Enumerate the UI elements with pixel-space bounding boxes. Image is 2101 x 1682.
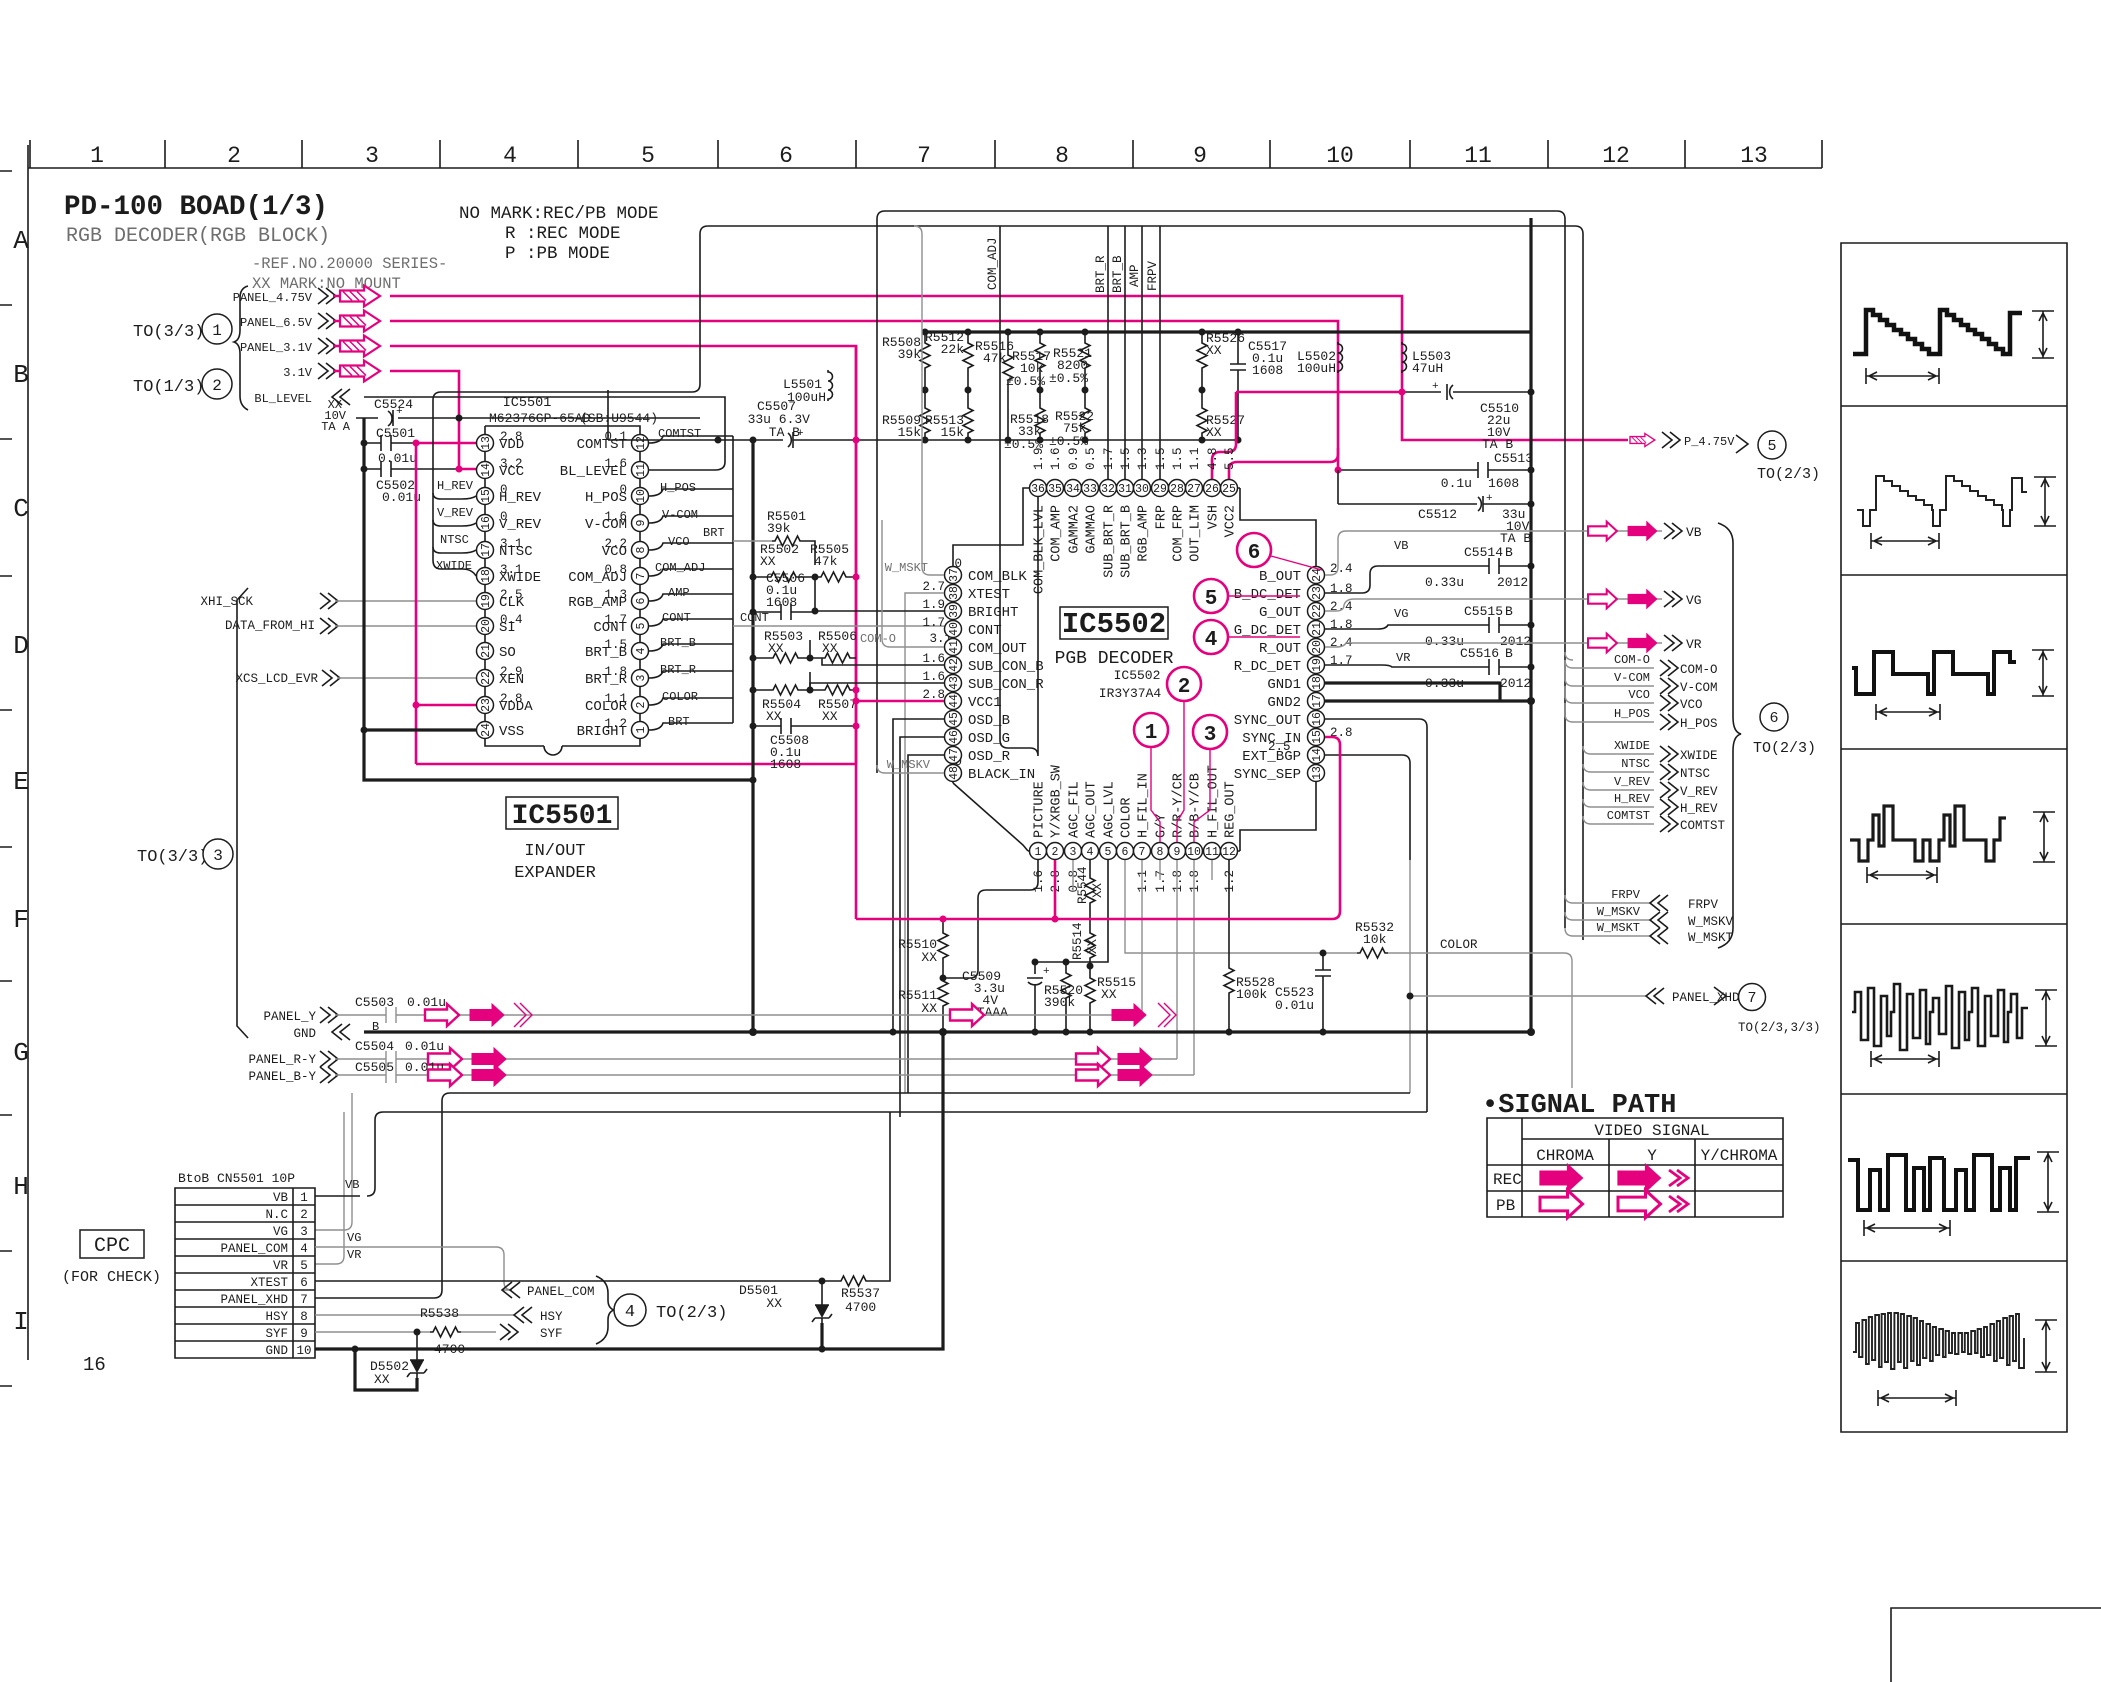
- svg-text:C: C: [13, 494, 29, 524]
- wire pin2 magenta drop: [1054, 860, 1057, 919]
- svg-text:11: 11: [1205, 846, 1219, 859]
- svg-text:V_REV: V_REV: [1680, 785, 1718, 799]
- wire VG output: [1588, 590, 1617, 609]
- svg-text:47k: 47k: [983, 351, 1007, 366]
- svg-text:0: 0: [500, 483, 508, 497]
- svg-text:IR3Y37A4: IR3Y37A4: [1099, 686, 1162, 701]
- IC5502 bottom pin labels: [1033, 764, 1239, 838]
- svg-text:4: 4: [625, 1303, 635, 1322]
- svg-text:20: 20: [480, 619, 493, 633]
- svg-text:1: 1: [300, 1191, 308, 1205]
- svg-text:3: 3: [365, 143, 379, 169]
- svg-text:SYNC_OUT: SYNC_OUT: [1234, 713, 1301, 729]
- waveform box frames: [1841, 243, 2067, 1432]
- svg-text:PANEL_3.1V: PANEL_3.1V: [240, 341, 313, 355]
- svg-text:SUB_CON_B: SUB_CON_B: [968, 659, 1044, 675]
- svg-text:1.2: 1.2: [604, 717, 627, 731]
- wire OSD_R pin47: [908, 755, 944, 1093]
- IC5502 top pin labels: [1033, 505, 1239, 594]
- svg-text:TA A: TA A: [321, 420, 351, 434]
- svg-text:R_DC_DET: R_DC_DET: [1234, 659, 1301, 675]
- svg-text:AGC_OUT: AGC_OUT: [1085, 781, 1100, 838]
- svg-text:C5516: C5516: [1460, 646, 1499, 661]
- svg-text:6: 6: [300, 1276, 308, 1290]
- wire pin3 drop: [1072, 860, 1074, 890]
- svg-text:32: 32: [1101, 483, 1115, 496]
- svg-text:XX: XX: [921, 950, 937, 965]
- svg-text:10: 10: [635, 489, 648, 503]
- ruler tick marks left edge: [0, 171, 12, 1386]
- svg-text:H_REV: H_REV: [437, 479, 474, 493]
- wire over IC5501: [433, 226, 1583, 940]
- svg-text:IC5501: IC5501: [503, 396, 552, 411]
- svg-text:TA B: TA B: [1482, 437, 1513, 452]
- svg-text:XWIDE: XWIDE: [1680, 749, 1718, 763]
- svg-text:PGB DECODER: PGB DECODER: [1055, 649, 1174, 669]
- svg-text:W_MSKV: W_MSKV: [887, 758, 931, 772]
- svg-text:REG_OUT: REG_OUT: [1224, 781, 1239, 838]
- svg-text:H_POS: H_POS: [660, 481, 696, 495]
- svg-text:8: 8: [1157, 846, 1164, 859]
- wire VCC2 magenta: [1229, 448, 1338, 479]
- svg-text:29: 29: [1153, 483, 1167, 496]
- svg-text:1.6: 1.6: [1049, 447, 1063, 470]
- svg-text:XX: XX: [766, 1296, 782, 1311]
- svg-text:36: 36: [1031, 483, 1045, 496]
- svg-text:IC5502: IC5502: [1062, 608, 1166, 641]
- svg-text:+: +: [1486, 493, 1493, 505]
- arrow REC Y: [1618, 1164, 1661, 1192]
- svg-text:+: +: [396, 406, 403, 418]
- svg-text:D: D: [13, 631, 29, 661]
- wire VSH feed magenta: [1236, 391, 1402, 394]
- svg-text:XTEST: XTEST: [968, 587, 1010, 603]
- svg-text:17: 17: [1311, 694, 1324, 708]
- svg-text:B_DC_DET: B_DC_DET: [1234, 587, 1301, 603]
- svg-text:3: 3: [635, 674, 648, 681]
- svg-text:XX: XX: [822, 641, 838, 656]
- resistor R5507: [822, 685, 853, 695]
- svg-text:7: 7: [917, 143, 931, 169]
- wire magenta lower trunk: [856, 737, 1340, 919]
- node 3 circled: [1193, 715, 1227, 749]
- wire VR long: [315, 1112, 344, 1264]
- wire pin8 drop: [1159, 860, 1161, 880]
- svg-text:41: 41: [948, 640, 961, 654]
- wire top power rail: [923, 330, 1531, 333]
- svg-text:COM_AMP: COM_AMP: [1050, 505, 1065, 562]
- arrow pair PANEL_Y right: [950, 1004, 984, 1026]
- arrow hatch 3.1V: [340, 361, 380, 382]
- svg-text:COM-O: COM-O: [1680, 663, 1718, 677]
- svg-text:+: +: [1043, 966, 1050, 978]
- svg-text:VR: VR: [1396, 651, 1410, 665]
- svg-text:-REF.NO.20000 SERIES-: -REF.NO.20000 SERIES-: [252, 255, 447, 273]
- svg-text:XX: XX: [1101, 987, 1117, 1002]
- arrow hatch PANEL_6.5V: [340, 311, 380, 332]
- svg-text:(SB:U9544): (SB:U9544): [580, 411, 658, 426]
- svg-text:OSD_B: OSD_B: [968, 713, 1010, 729]
- node 4 TO(2/3): [614, 1294, 646, 1326]
- svg-text:2.5: 2.5: [500, 588, 523, 602]
- svg-text:XX: XX: [1206, 343, 1222, 358]
- svg-text:C5501: C5501: [376, 426, 415, 441]
- svg-text:F: F: [13, 905, 29, 935]
- wire magenta power vertical mid: [855, 346, 858, 764]
- svg-text:CONT: CONT: [968, 623, 1002, 639]
- svg-text:6: 6: [635, 597, 648, 604]
- svg-text:1: 1: [90, 143, 104, 169]
- svg-text:8: 8: [300, 1310, 308, 1324]
- waveform 1 staircase sawtooth: [1853, 310, 2022, 354]
- node CPC: [80, 1230, 144, 1258]
- svg-text:2.9: 2.9: [500, 665, 523, 679]
- svg-text:V-COM: V-COM: [1614, 671, 1650, 685]
- wire XTEST long: [434, 1093, 1410, 1298]
- IC5501 pins 13-24: [477, 435, 649, 739]
- svg-text:2: 2: [635, 701, 648, 708]
- svg-text:H_REV: H_REV: [1680, 802, 1718, 816]
- svg-text:VCO: VCO: [668, 535, 690, 549]
- wire VSS pin24: [364, 728, 476, 731]
- svg-text:10: 10: [1326, 143, 1354, 169]
- svg-text:VCC1: VCC1: [968, 695, 1002, 711]
- svg-text:39: 39: [948, 604, 961, 618]
- svg-text:47: 47: [948, 748, 961, 762]
- svg-text:AGC_FIL: AGC_FIL: [1068, 781, 1083, 838]
- svg-text:COM-O: COM-O: [860, 632, 896, 646]
- svg-text:C5514: C5514: [1464, 545, 1503, 560]
- svg-text:H_POS: H_POS: [1614, 707, 1650, 721]
- svg-text:9: 9: [300, 1327, 308, 1341]
- wire PANEL_XHD long: [367, 1112, 1427, 1196]
- svg-text:1.7: 1.7: [1102, 447, 1116, 470]
- IC5501 magenta pin voltages: [500, 430, 523, 706]
- svg-text:5: 5: [641, 143, 655, 169]
- arrow PB Y: [1618, 1190, 1661, 1218]
- waveform 3 step pulses: [1852, 652, 2016, 694]
- svg-text:24: 24: [1311, 568, 1324, 582]
- arrow REC chroma: [1540, 1164, 1583, 1192]
- svg-text:1: 1: [635, 726, 648, 733]
- svg-text:0: 0: [619, 483, 627, 497]
- svg-text:6: 6: [1122, 846, 1129, 859]
- svg-text:R5544: R5544: [1076, 866, 1090, 904]
- svg-text:1.6: 1.6: [922, 670, 945, 684]
- svg-text:2012: 2012: [1497, 575, 1528, 590]
- svg-text:V-COM: V-COM: [662, 508, 698, 522]
- arrow pair PANEL_Y left: [425, 1004, 459, 1026]
- node 6 circled: [1237, 533, 1271, 567]
- svg-text:3.1: 3.1: [500, 563, 523, 577]
- wire PANEL_3.1V magenta trunk: [333, 346, 856, 764]
- svg-text:5: 5: [1205, 588, 1218, 611]
- svg-text:15: 15: [480, 489, 493, 503]
- IC5502 pins right column 24-13: [1308, 567, 1325, 584]
- wire EXT_BGP stub: [1325, 755, 1410, 860]
- svg-text:TO(2/3): TO(2/3): [1753, 740, 1816, 757]
- svg-text:R5514: R5514: [1071, 922, 1085, 960]
- svg-text:3: 3: [1204, 724, 1217, 747]
- svg-text:COM_BLK_LVL: COM_BLK_LVL: [1033, 505, 1048, 594]
- svg-text:TO(2/3,3/3): TO(2/3,3/3): [1738, 1021, 1821, 1035]
- svg-text:23: 23: [480, 698, 493, 712]
- wire GND bottom: [315, 1032, 943, 1349]
- svg-text:CHROMA: CHROMA: [1536, 1147, 1594, 1165]
- wire R-Y pin9 drop: [1176, 860, 1178, 1059]
- svg-text:1.7: 1.7: [1154, 870, 1168, 893]
- svg-text:28: 28: [1170, 483, 1184, 496]
- svg-text:TO(1/3): TO(1/3): [133, 378, 204, 397]
- svg-text:34: 34: [1066, 483, 1080, 496]
- svg-text:4: 4: [635, 647, 648, 654]
- svg-text:12: 12: [1602, 143, 1630, 169]
- svg-text:7: 7: [300, 1293, 308, 1307]
- svg-text:18: 18: [1311, 676, 1324, 690]
- svg-text:30: 30: [1135, 483, 1149, 496]
- wire B_OUT to VB: [1325, 531, 1628, 575]
- svg-text:3.2: 3.2: [500, 457, 523, 471]
- wire SYF pin9: [315, 1331, 496, 1333]
- svg-text:W_MSKT: W_MSKT: [1597, 921, 1640, 935]
- svg-text:10: 10: [1187, 846, 1201, 859]
- svg-text:V_REV: V_REV: [437, 506, 474, 520]
- svg-text:VB: VB: [345, 1178, 359, 1192]
- ruler row letters: [13, 226, 29, 1337]
- signal path table: [1487, 1118, 1783, 1217]
- svg-text:6: 6: [779, 143, 793, 169]
- svg-text:4: 4: [300, 1242, 308, 1256]
- svg-text:XX: XX: [1206, 425, 1222, 440]
- svg-text:XWIDE: XWIDE: [1614, 739, 1650, 753]
- svg-text:4: 4: [1205, 629, 1218, 652]
- wire SUB_CON_R stub pin43: [810, 683, 944, 690]
- svg-text:1.7: 1.7: [922, 616, 945, 630]
- IC5502 left pin labels: [968, 569, 1044, 783]
- svg-text:19: 19: [1311, 658, 1324, 672]
- svg-text:1.2: 1.2: [1223, 870, 1237, 893]
- wire H_FIL_IN pin7 drop: [1141, 860, 1143, 1015]
- svg-text:TO(3/3): TO(3/3): [133, 323, 204, 342]
- svg-text:PANEL_Y: PANEL_Y: [263, 1010, 316, 1024]
- IC5501 right pin labels: [560, 437, 628, 740]
- svg-text:XX: XX: [822, 709, 838, 724]
- svg-text:IC5501: IC5501: [512, 801, 613, 832]
- svg-text:0: 0: [500, 510, 508, 524]
- wire pin11 drop: [1211, 860, 1213, 880]
- svg-text:2: 2: [227, 143, 241, 169]
- svg-text:H_REV: H_REV: [1614, 792, 1651, 806]
- svg-text:1.6: 1.6: [604, 457, 627, 471]
- svg-text:C5505: C5505: [355, 1060, 394, 1075]
- wire left vertical VSS bus: [364, 418, 753, 780]
- svg-text:CPC: CPC: [94, 1235, 130, 1258]
- svg-text:SO: SO: [499, 645, 516, 661]
- svg-text:13: 13: [1311, 766, 1324, 780]
- wire SYNC_OUT stub: [1325, 719, 1427, 1112]
- wire HSY pin8: [315, 1314, 514, 1316]
- wire VCC1 magenta pin44: [856, 700, 944, 703]
- svg-text:24: 24: [480, 723, 493, 737]
- svg-text:PANEL_R-Y: PANEL_R-Y: [248, 1053, 316, 1067]
- svg-text:1.8: 1.8: [1330, 618, 1353, 632]
- svg-text:XHI_SCK: XHI_SCK: [200, 595, 253, 609]
- svg-text:31: 31: [1118, 483, 1132, 496]
- svg-text:AGC_LVL: AGC_LVL: [1103, 781, 1118, 838]
- svg-text:8: 8: [635, 546, 648, 553]
- svg-text:I: I: [13, 1307, 29, 1337]
- svg-text:1.8: 1.8: [1171, 870, 1185, 893]
- svg-text:10: 10: [296, 1344, 311, 1358]
- svg-text:AMP: AMP: [668, 586, 690, 600]
- IC5501 left pin labels: [499, 437, 542, 740]
- svg-text:BRT_R: BRT_R: [660, 663, 696, 677]
- connector CN5501 body: [175, 1188, 315, 1358]
- svg-text:9: 9: [1174, 846, 1181, 859]
- node HSY chevron: [514, 1307, 532, 1323]
- svg-text:M62376GP-65AD: M62376GP-65AD: [489, 411, 591, 426]
- svg-text:PANEL_COM: PANEL_COM: [220, 1242, 288, 1256]
- svg-text:GAMMAO: GAMMAO: [1085, 505, 1100, 554]
- wire XTEST stub pin38: [905, 593, 944, 1093]
- svg-text:VIDEO SIGNAL: VIDEO SIGNAL: [1594, 1122, 1709, 1140]
- svg-text:43: 43: [948, 676, 961, 690]
- wire G_OUT to VG: [1325, 599, 1662, 611]
- svg-text:C5513: C5513: [1494, 451, 1533, 466]
- svg-text:2.7: 2.7: [922, 580, 945, 594]
- svg-text:38: 38: [948, 586, 961, 600]
- wire BL_LEVEL: [364, 397, 725, 470]
- svg-text:COM_ADJ: COM_ADJ: [655, 561, 705, 575]
- svg-text:B: B: [13, 360, 29, 390]
- svg-text:VB: VB: [1686, 525, 1702, 540]
- svg-text:Y/CHROMA: Y/CHROMA: [1701, 1147, 1778, 1165]
- svg-text:45: 45: [948, 712, 961, 726]
- brace section 4: [596, 1276, 614, 1344]
- svg-text:N.C: N.C: [265, 1208, 288, 1222]
- capacitor C5508: [753, 718, 856, 734]
- wire PANEL_XHD out: [1410, 860, 1646, 1093]
- wire OSD_B pin45: [893, 719, 944, 1032]
- svg-text:1.1: 1.1: [1136, 870, 1150, 893]
- svg-text:FRPV: FRPV: [1688, 898, 1719, 912]
- svg-text:15: 15: [1311, 730, 1324, 744]
- svg-text:35: 35: [1048, 483, 1062, 496]
- svg-text:B: B: [1505, 646, 1513, 661]
- svg-text:0.9: 0.9: [1067, 447, 1081, 470]
- svg-text:PANEL_COM: PANEL_COM: [527, 1285, 595, 1299]
- svg-text:BRT_B: BRT_B: [1111, 255, 1125, 293]
- svg-text:2: 2: [300, 1208, 308, 1222]
- wire OSD_G pin46: [900, 737, 944, 1117]
- IC5501 function label box: [506, 797, 618, 829]
- svg-text:16: 16: [1311, 712, 1324, 726]
- wire W_MSKV loop vertical: [877, 211, 1565, 928]
- svg-text:6: 6: [1769, 710, 1778, 727]
- wire pin1 PICTURE drop: [943, 860, 1038, 978]
- svg-text:COM_ADJ: COM_ADJ: [986, 237, 1000, 290]
- svg-text:A: A: [13, 226, 29, 256]
- svg-text:+: +: [1432, 381, 1439, 393]
- svg-text:Y: Y: [1647, 1147, 1657, 1165]
- svg-text:W_MSKV: W_MSKV: [1597, 905, 1641, 919]
- svg-text:G_OUT: G_OUT: [1259, 605, 1301, 621]
- svg-text:2: 2: [212, 377, 222, 395]
- wire G_DC_DET to C5515: [1325, 617, 1531, 633]
- svg-text:EXPANDER: EXPANDER: [514, 864, 596, 883]
- svg-text:B_OUT: B_OUT: [1259, 569, 1301, 585]
- svg-text:R :REC MODE: R :REC MODE: [505, 224, 621, 244]
- svg-text:HSY: HSY: [265, 1310, 288, 1324]
- svg-text:12: 12: [635, 436, 648, 450]
- svg-text:1.8: 1.8: [604, 665, 627, 679]
- svg-text:0.33u: 0.33u: [1425, 634, 1464, 649]
- svg-text:VCC2: VCC2: [1224, 505, 1239, 537]
- svg-text:OUT_LIM: OUT_LIM: [1189, 505, 1204, 562]
- node 5 TO(2/3): [1758, 431, 1786, 459]
- wire COLOR net pin6: [1125, 860, 1572, 1088]
- svg-text:VB: VB: [1394, 539, 1408, 553]
- svg-text:GND: GND: [265, 1344, 288, 1358]
- svg-text:±0.5%: ±0.5%: [1049, 371, 1088, 386]
- wire vertical bus left of R block: [751, 440, 754, 1032]
- svg-text:DATA_FROM_HI: DATA_FROM_HI: [225, 619, 315, 633]
- svg-text:XX: XX: [374, 1372, 390, 1387]
- svg-text:19: 19: [480, 594, 493, 608]
- svg-text:2.5: 2.5: [1268, 740, 1291, 754]
- svg-text:15k: 15k: [941, 425, 965, 440]
- IC5501 pins 12-1: [632, 435, 649, 452]
- wire XTEST pin6: [315, 1280, 838, 1282]
- svg-text:39k: 39k: [767, 521, 791, 536]
- svg-text:COMTST: COMTST: [658, 427, 701, 441]
- node 4 circled: [1194, 620, 1228, 654]
- svg-text:15k: 15k: [898, 425, 922, 440]
- magenta mode legend: [459, 204, 659, 264]
- svg-text:R_OUT: R_OUT: [1259, 641, 1301, 657]
- svg-text:4700: 4700: [845, 1300, 876, 1315]
- svg-text:2012: 2012: [1500, 676, 1531, 691]
- waveform 6 wide pulses: [1848, 1155, 2030, 1210]
- svg-text:TA B: TA B: [769, 425, 800, 440]
- svg-text:5.5: 5.5: [1223, 447, 1237, 470]
- waveform 4 pulse groups: [1850, 806, 2006, 861]
- svg-text:3: 3: [1070, 846, 1077, 859]
- arrow PB chroma: [1540, 1190, 1583, 1218]
- svg-text:1.1: 1.1: [604, 692, 627, 706]
- resistor R5504: [770, 685, 801, 695]
- svg-text:VSS: VSS: [499, 724, 524, 740]
- svg-text:20: 20: [1311, 640, 1324, 654]
- svg-text:SUB_CON_R: SUB_CON_R: [968, 677, 1044, 693]
- wire GND bus: [364, 1030, 1531, 1033]
- svg-text:14: 14: [1311, 748, 1324, 762]
- svg-text:0.01u: 0.01u: [407, 995, 446, 1010]
- IC5502 magenta voltages bottom: [1032, 870, 1237, 893]
- wire bottom rail of divider bank: [923, 439, 1238, 441]
- svg-text:2.8: 2.8: [500, 692, 523, 706]
- svg-text:BtoB CN5501 10P: BtoB CN5501 10P: [178, 1171, 295, 1186]
- svg-text:REC: REC: [1493, 1171, 1522, 1189]
- svg-text:B: B: [1505, 604, 1513, 619]
- svg-text:VG: VG: [273, 1225, 288, 1239]
- svg-text:H_FIL_OUT: H_FIL_OUT: [1207, 765, 1222, 838]
- svg-text:TO(3/3): TO(3/3): [137, 848, 208, 867]
- svg-text:TO(2/3): TO(2/3): [656, 1304, 727, 1323]
- svg-text:B: B: [1505, 545, 1513, 560]
- svg-text:E: E: [13, 767, 29, 797]
- svg-text:40: 40: [948, 622, 961, 636]
